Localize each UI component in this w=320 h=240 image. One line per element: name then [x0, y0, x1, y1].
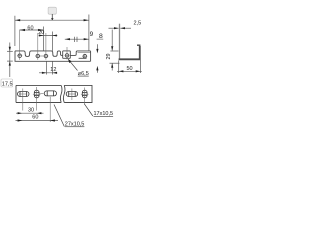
- svg-text:60: 60: [27, 26, 33, 32]
- svg-text:12: 12: [50, 67, 56, 73]
- cross-section profile: [119, 24, 141, 60]
- svg-text:29: 29: [106, 53, 112, 59]
- svg-text:27x10,5: 27x10,5: [65, 122, 85, 128]
- bottom view outline with break: [16, 85, 92, 102]
- left height dimension of side view (outside arrows): [7, 43, 13, 78]
- svg-text:2,5: 2,5: [134, 21, 142, 27]
- svg-text:⌀6,5: ⌀6,5: [78, 71, 89, 77]
- centre lines bottom view: [19, 87, 89, 122]
- gray tag box above total-length dimension: [48, 7, 56, 20]
- slots in bottom view: [18, 90, 88, 98]
- hole circles in side view: [18, 54, 87, 58]
- total length dimension line (top): [15, 15, 89, 51]
- svg-text:60: 60: [32, 115, 38, 121]
- svg-text:17,5: 17,5: [2, 82, 13, 88]
- svg-text:9: 9: [90, 31, 94, 38]
- leader with label ⌀6,5: [68, 59, 89, 77]
- label 17x10,5 with leader: [84, 104, 113, 117]
- dimension 9 arrows (right side of side view): [96, 44, 98, 73]
- 17,5 label in box: [1, 79, 13, 88]
- 8 dimension (lip): [110, 30, 118, 52]
- label 27x10,5 with leader: [54, 105, 84, 128]
- side view of rail (strip): [15, 51, 91, 61]
- centre lines through holes: [17, 30, 87, 60]
- svg-text:17x10,5: 17x10,5: [94, 111, 114, 117]
- svg-text:30: 30: [28, 108, 34, 114]
